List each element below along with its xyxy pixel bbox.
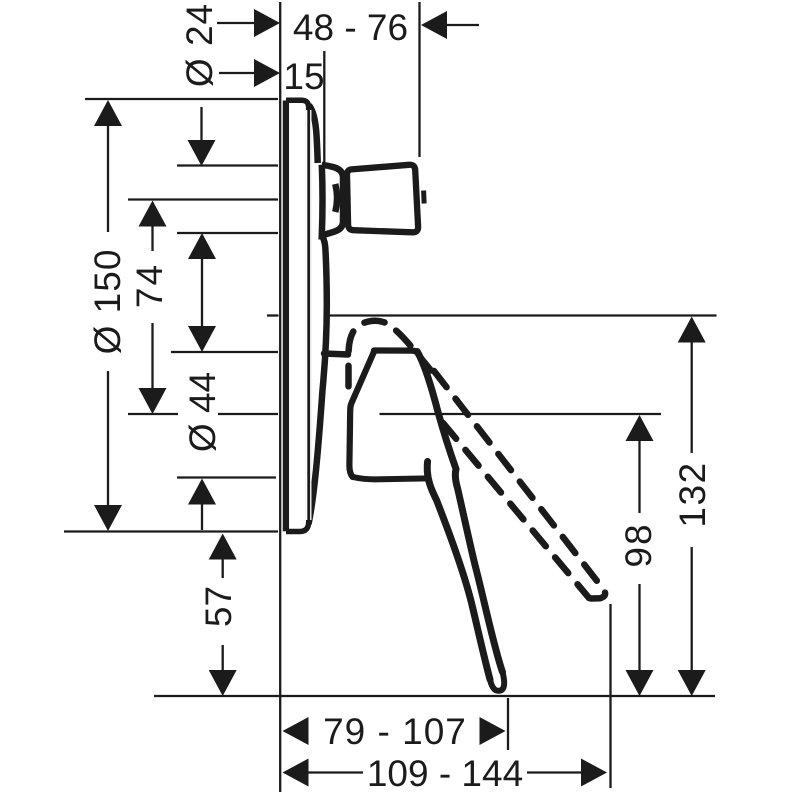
svg-text:132: 132 [672, 461, 713, 527]
dim O44 bottom arrow [188, 479, 216, 505]
extension line dashed-tip x610 [609, 604, 611, 788]
dim O150 top arrow [94, 100, 122, 126]
dim O24 top arrow [200, 107, 202, 142]
extension line lever-pivot left y414 [128, 413, 178, 415]
extension line handle-top y352 [171, 351, 278, 353]
dim 79-107 left arrow [283, 717, 309, 745]
extension line plate-apex x324 [323, 51, 325, 163]
dim 74 top arrow [139, 201, 167, 227]
ground reference line y696 [154, 695, 715, 697]
wall reference line x281 [279, 2, 281, 792]
escutcheon dome upper [309, 106, 318, 164]
lever handle solid fill [349, 351, 504, 693]
dashed lever outline arc (up position) [349, 321, 432, 391]
dim 48-76 left arrow [217, 22, 255, 24]
svg-text:79 - 107: 79 - 107 [323, 711, 467, 752]
dashed lever bottom-edge dash [324, 354, 348, 355]
dim 109-144 left arrow [283, 759, 309, 787]
lever handle left edge [349, 351, 374, 478]
dim 79-107 right arrow [480, 717, 506, 745]
svg-text:15: 15 [283, 56, 324, 97]
plate front face [283, 101, 289, 532]
lever blade right edge [417, 352, 502, 673]
cone inner arc [335, 184, 337, 212]
svg-text:Ø 44: Ø 44 [182, 372, 223, 452]
dim 98 bottom arrow [638, 584, 640, 672]
extension line knob-front x420 [418, 2, 420, 157]
cone neck [322, 165, 343, 236]
knob end tab [421, 191, 427, 204]
extension line plate-center right y315 [328, 314, 717, 316]
svg-text:57: 57 [198, 586, 239, 627]
svg-text:Ø 150: Ø 150 [87, 249, 128, 355]
extension line plate-center stub y315 [267, 314, 279, 316]
dim 132 bottom arrow [691, 547, 693, 672]
svg-text:Ø 24: Ø 24 [179, 3, 220, 87]
extension line lever-pivot right y414 [380, 413, 662, 415]
dim 132 top arrow [678, 317, 706, 343]
dim 57 bottom arrow [222, 645, 224, 672]
dim 57 top arrow [209, 534, 237, 560]
svg-text:109 - 144: 109 - 144 [367, 753, 523, 794]
dim 15 arrow [219, 72, 255, 74]
dim O150 bottom arrow [107, 371, 109, 507]
lever blade left edge [427, 462, 490, 680]
lever blade tip [490, 674, 504, 691]
extension line handle-bottom y477 [177, 476, 276, 478]
extension line plate-bottom y531 [64, 530, 278, 532]
extension line knob-top y165 [177, 164, 278, 166]
extension line knob-center y199 [128, 198, 278, 200]
extension line knob-bottom y233 [177, 232, 278, 234]
escutcheon dome lower [309, 237, 327, 525]
escutcheon plate [282, 98, 310, 534]
extension line lever-tip x508 [507, 698, 509, 750]
dim 109-144 right arrow [581, 759, 607, 787]
dashed lever upper blade line [434, 371, 605, 599]
extension line plate-top y99 [85, 98, 278, 100]
knob [347, 165, 418, 233]
svg-text:98: 98 [618, 522, 659, 567]
svg-text:74: 74 [129, 263, 170, 308]
dim O24/O44 shared arrows [188, 233, 216, 259]
lever handle bottom edge [353, 477, 429, 479]
dim 98 top arrow [626, 415, 654, 441]
svg-text:48 - 76: 48 - 76 [293, 7, 408, 48]
dim 48-76 right arrow [421, 11, 447, 39]
lever handle top edge [374, 351, 418, 355]
dim 74 bottom arrow [151, 323, 153, 390]
dashed lever lower blade line [443, 423, 589, 598]
